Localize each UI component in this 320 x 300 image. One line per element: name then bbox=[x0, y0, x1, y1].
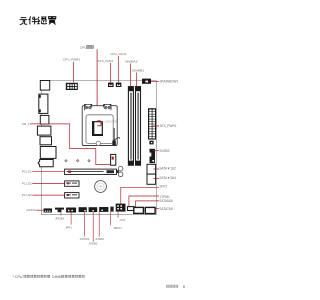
wire PCI_E3 bbox=[32, 194, 67, 196]
PCI_E3 x1 slot bbox=[65, 193, 79, 198]
svg-text:JBAT1: JBAT1 bbox=[113, 226, 122, 230]
svg-text:9: 9 bbox=[183, 285, 185, 289]
wire JCI1 bbox=[117, 212, 119, 218]
connector small header bbox=[149, 141, 153, 145]
wire SATA1&2 bbox=[154, 168, 160, 170]
wire M2_1 bbox=[30, 124, 113, 165]
svg-text:ATX_PWR1: ATX_PWR1 bbox=[160, 124, 177, 128]
red mark PCI_E1 bbox=[68, 171, 71, 173]
PCI_E2 x1 slot bbox=[65, 181, 79, 186]
svg-text:JUSB3: JUSB3 bbox=[160, 149, 170, 153]
wire CPU_FAN1 bbox=[117, 56, 119, 83]
connector SYS_FAN1 header bbox=[108, 83, 114, 87]
wire JFP1 bbox=[70, 213, 72, 225]
svg-text:JFP2: JFP2 bbox=[160, 185, 168, 189]
socket centre key block bbox=[92, 121, 94, 136]
wire SYS_FAN1 bbox=[110, 63, 112, 83]
元 bbox=[20, 18, 28, 25]
wire JRGB1 bbox=[60, 212, 62, 215]
svg-text:CPU_FAN1: CPU_FAN1 bbox=[110, 52, 126, 56]
wire PCI_E2 bbox=[32, 182, 67, 184]
socket inner frame bbox=[86, 115, 113, 144]
svg-text:JAUD1: JAUD1 bbox=[26, 208, 36, 212]
svg-text:M2_1: M2_1 bbox=[22, 122, 30, 126]
connector SATA3&4 bbox=[147, 174, 156, 184]
svg-text:DIMM: DIMM bbox=[52, 275, 62, 279]
svg-text:PCI_E2: PCI_E2 bbox=[22, 181, 32, 185]
wire JFP2 bbox=[121, 187, 159, 204]
bottom connector 8 front panel bbox=[116, 204, 126, 212]
wire JTPM1 bbox=[129, 196, 159, 206]
bottom connector 6 bbox=[99, 207, 108, 212]
wire JUSB2 bbox=[92, 212, 94, 242]
wire JAUD1 bbox=[36, 209, 44, 211]
總 bbox=[37, 17, 47, 24]
rear IO port LAN bbox=[40, 147, 56, 159]
wire ATX_PWR1 bbox=[153, 125, 159, 127]
rear IO port video bbox=[40, 115, 49, 124]
PCI_E1 x16 slot bbox=[65, 166, 123, 176]
svg-text:LGA1700: LGA1700 bbox=[105, 120, 117, 124]
bottom connector 4 bbox=[79, 207, 87, 212]
svg-text:PCI_E1: PCI_E1 bbox=[22, 170, 32, 174]
svg-text:SYS_FAN1: SYS_FAN1 bbox=[97, 59, 113, 63]
red target mark P bbox=[97, 121, 101, 126]
connector ATX_PWR1 24-pin bbox=[148, 108, 156, 139]
wire JRAINBOW1 bbox=[151, 81, 159, 83]
socket lever bbox=[114, 128, 119, 141]
bottom connector 9 white bbox=[128, 207, 135, 211]
connector M2 slot bbox=[111, 154, 116, 165]
wire DIMMA1 bbox=[130, 63, 132, 87]
覽 bbox=[48, 17, 56, 25]
svg-text:JFP1: JFP1 bbox=[65, 226, 72, 230]
rear IO port USB stack bbox=[39, 94, 48, 113]
DIMM slot A bbox=[128, 87, 133, 166]
svg-text:PCI_E3: PCI_E3 bbox=[22, 193, 32, 197]
connector JUSB3 bbox=[150, 149, 156, 163]
wire CPU_PWR2 bbox=[73, 62, 75, 83]
PCI_E1 latch bbox=[116, 170, 119, 173]
board outline bbox=[41, 81, 156, 215]
wire PCI_E1 bbox=[32, 171, 68, 173]
bottom connector JAUD1 bbox=[44, 208, 52, 212]
svg-text:SATA7&8: SATA7&8 bbox=[159, 207, 173, 211]
svg-text:JRAINBOW1: JRAINBOW1 bbox=[160, 80, 179, 84]
svg-text:SATA▼1&2: SATA▼1&2 bbox=[159, 167, 176, 171]
wire SATA3&4 bbox=[154, 178, 160, 180]
wire JCOM1 bbox=[84, 212, 86, 237]
CPU socket bbox=[82, 104, 119, 145]
件 bbox=[29, 16, 38, 24]
DIMM slot B bbox=[136, 87, 141, 166]
svg-text:JUSB1: JUSB1 bbox=[95, 237, 104, 241]
connector SATA1&2 bbox=[147, 164, 156, 174]
wire JBAT1 bbox=[110, 212, 112, 226]
svg-text:JUSB2: JUSB2 bbox=[88, 242, 97, 246]
connector CPU_FAN1 header bbox=[116, 83, 122, 87]
svg-text:CPU_PWR2: CPU_PWR2 bbox=[63, 58, 80, 62]
M2 standoff holes bbox=[65, 160, 90, 162]
wire SATA5&6 bbox=[136, 201, 159, 207]
connector SATA7&8 ports bbox=[145, 207, 155, 213]
bottom connector 2 bbox=[55, 208, 64, 213]
svg-text:* CPU: * CPU bbox=[13, 275, 23, 279]
bottom connector 7 bbox=[110, 207, 113, 212]
connector SATA5&6 ports bbox=[134, 207, 144, 213]
bottom connector 3 bbox=[66, 208, 76, 213]
wire DIMMB1 bbox=[136, 72, 138, 87]
svg-text:SATA5&6: SATA5&6 bbox=[159, 199, 173, 203]
rear IO port audio bbox=[38, 160, 53, 167]
svg-text:DIMMA1*: DIMMA1* bbox=[125, 60, 139, 64]
connector CPU_PWR2 8-pin bbox=[66, 83, 78, 90]
rear IO port PS2 bbox=[40, 81, 49, 91]
svg-text:SATA▼3&4: SATA▼3&4 bbox=[159, 176, 176, 180]
footnote bbox=[13, 275, 85, 279]
svg-text:DIMMB1: DIMMB1 bbox=[132, 69, 144, 73]
wire JUSB3 bbox=[153, 150, 159, 152]
title 元件總覽 (drawn glyphs) bbox=[20, 16, 56, 24]
wire CPU socket bbox=[96, 49, 98, 129]
socket ear left bbox=[84, 104, 91, 110]
svg-text:CPU: CPU bbox=[80, 46, 87, 50]
svg-text:JCI1: JCI1 bbox=[119, 218, 125, 222]
connector JRAINBOW1 bbox=[142, 79, 151, 84]
battery bbox=[95, 181, 107, 193]
socket ear right bbox=[104, 104, 111, 110]
socket bottom notch bbox=[96, 141, 100, 145]
svg-text:JRGB1: JRGB1 bbox=[55, 217, 65, 221]
rear IO port DP bbox=[40, 137, 52, 145]
label CPU socket (CPU + 2 CJK glyph blocks) bbox=[80, 45, 93, 49]
wire JUSB1 bbox=[98, 212, 100, 237]
bottom connector 5 bbox=[89, 207, 98, 212]
wire SATA7&8 bbox=[155, 208, 159, 210]
footer bbox=[166, 285, 185, 289]
rear IO port HDMI bbox=[37, 126, 51, 135]
